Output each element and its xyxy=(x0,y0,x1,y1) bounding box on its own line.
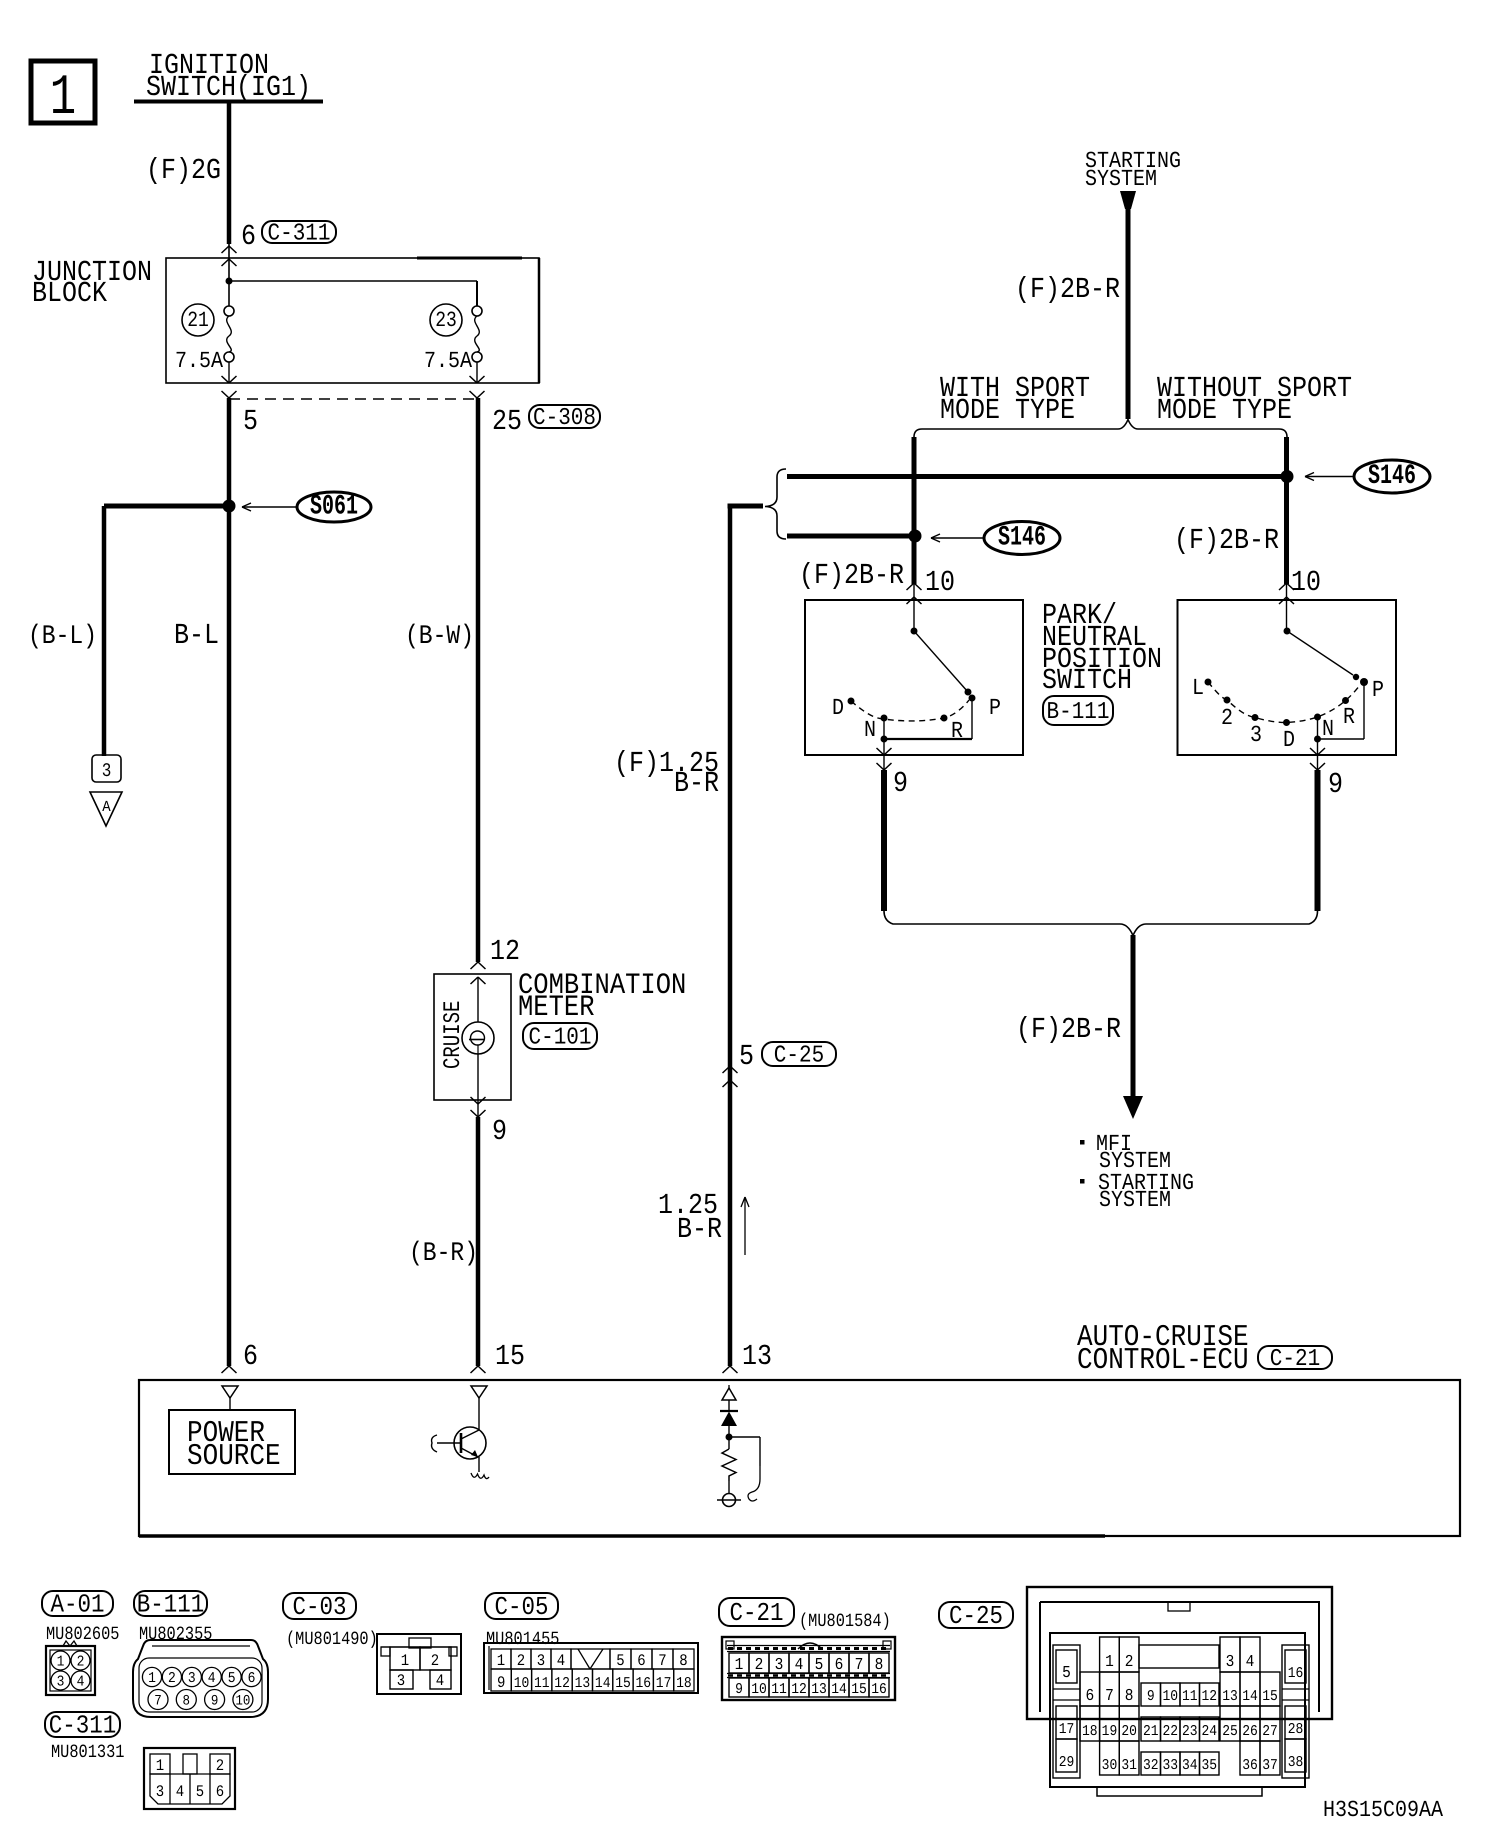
svg-text:CONTROL-ECU: CONTROL-ECU xyxy=(1077,1342,1249,1377)
svg-text:3: 3 xyxy=(537,1652,545,1670)
svg-text:29: 29 xyxy=(1059,1753,1075,1770)
svg-text:R: R xyxy=(1343,705,1355,731)
svg-text:9: 9 xyxy=(1328,768,1343,802)
svg-text:1: 1 xyxy=(401,1652,409,1670)
svg-text:10: 10 xyxy=(1162,1687,1178,1704)
svg-text:21: 21 xyxy=(187,309,209,333)
svg-text:25: 25 xyxy=(492,405,522,439)
svg-text:(MU801490): (MU801490) xyxy=(286,1628,378,1650)
svg-text:4: 4 xyxy=(436,1672,444,1690)
svg-text:C-311: C-311 xyxy=(49,1711,117,1741)
svg-text:27: 27 xyxy=(1262,1722,1278,1739)
svg-text:(F)2B-R: (F)2B-R xyxy=(1174,524,1279,558)
svg-text:(F)2G: (F)2G xyxy=(146,154,221,188)
svg-text:28: 28 xyxy=(1288,1720,1304,1737)
svg-text:B-R: B-R xyxy=(674,767,719,801)
svg-text:14: 14 xyxy=(1242,1687,1258,1704)
svg-text:5: 5 xyxy=(815,1656,824,1674)
svg-text:12: 12 xyxy=(554,1674,570,1691)
svg-text:12: 12 xyxy=(490,935,520,969)
svg-text:B-R: B-R xyxy=(677,1213,722,1247)
svg-text:BLOCK: BLOCK xyxy=(32,277,107,311)
svg-text:SYSTEM: SYSTEM xyxy=(1085,167,1157,193)
svg-text:A-01: A-01 xyxy=(50,1590,104,1620)
svg-text:7: 7 xyxy=(154,1693,162,1709)
svg-text:5: 5 xyxy=(739,1040,754,1074)
svg-text:17: 17 xyxy=(1059,1720,1075,1737)
svg-text:35: 35 xyxy=(1201,1756,1217,1773)
svg-text:B-111: B-111 xyxy=(137,1590,205,1620)
svg-text:C-311: C-311 xyxy=(267,221,330,247)
svg-text:9: 9 xyxy=(497,1674,505,1692)
svg-text:5: 5 xyxy=(196,1783,204,1801)
svg-text:16: 16 xyxy=(871,1680,887,1697)
svg-text:4: 4 xyxy=(1246,1653,1255,1671)
svg-text:23: 23 xyxy=(435,309,457,333)
svg-text:SWITCH(IG1): SWITCH(IG1) xyxy=(146,71,311,105)
svg-text:B-111: B-111 xyxy=(1046,700,1109,726)
svg-text:9: 9 xyxy=(1147,1687,1155,1704)
svg-text:33: 33 xyxy=(1162,1756,1178,1773)
svg-text:3: 3 xyxy=(1250,723,1262,749)
svg-text:3: 3 xyxy=(102,760,112,782)
svg-text:P: P xyxy=(989,696,1001,722)
svg-text:16: 16 xyxy=(1288,1664,1304,1681)
svg-text:23: 23 xyxy=(1182,1722,1198,1739)
svg-text:11: 11 xyxy=(534,1674,550,1691)
svg-text:10: 10 xyxy=(235,1693,250,1709)
svg-text:3: 3 xyxy=(188,1669,196,1686)
svg-text:C-05: C-05 xyxy=(494,1592,548,1622)
svg-text:13: 13 xyxy=(742,1340,772,1374)
svg-text:MU802355: MU802355 xyxy=(139,1623,212,1645)
svg-text:C-21: C-21 xyxy=(729,1598,783,1628)
svg-text:(B-R): (B-R) xyxy=(409,1238,478,1268)
svg-text:19: 19 xyxy=(1102,1722,1118,1739)
svg-text:8: 8 xyxy=(183,1693,191,1709)
svg-text:C-03: C-03 xyxy=(292,1592,346,1622)
svg-text:9: 9 xyxy=(735,1680,743,1697)
svg-text:4: 4 xyxy=(208,1669,216,1686)
svg-text:9: 9 xyxy=(492,1115,507,1149)
svg-text:5: 5 xyxy=(228,1669,236,1686)
svg-text:1: 1 xyxy=(57,1653,65,1670)
svg-text:31: 31 xyxy=(1121,1756,1137,1773)
svg-text:METER: METER xyxy=(518,991,595,1025)
svg-text:3: 3 xyxy=(156,1783,164,1801)
svg-text:24: 24 xyxy=(1201,1722,1217,1739)
svg-text:(B-L): (B-L) xyxy=(28,621,97,651)
svg-text:1: 1 xyxy=(1105,1653,1114,1671)
svg-text:18: 18 xyxy=(676,1674,692,1691)
svg-text:4: 4 xyxy=(77,1673,85,1690)
svg-text:4: 4 xyxy=(795,1656,804,1674)
svg-text:C-101: C-101 xyxy=(528,1025,591,1051)
svg-text:C-25: C-25 xyxy=(774,1043,824,1069)
svg-text:C-308: C-308 xyxy=(533,406,596,432)
svg-text:2: 2 xyxy=(168,1669,176,1686)
svg-text:15: 15 xyxy=(495,1340,525,1374)
svg-text:36: 36 xyxy=(1242,1756,1258,1773)
svg-text:10: 10 xyxy=(514,1674,530,1691)
svg-text:12: 12 xyxy=(791,1680,807,1697)
svg-text:(F)2B-R: (F)2B-R xyxy=(1016,1013,1121,1047)
svg-text:20: 20 xyxy=(1121,1722,1137,1739)
svg-text:7.5A: 7.5A xyxy=(175,349,223,375)
svg-text:11: 11 xyxy=(1182,1687,1198,1704)
svg-text:15: 15 xyxy=(1262,1687,1278,1704)
svg-text:34: 34 xyxy=(1182,1756,1198,1773)
svg-text:MU802605: MU802605 xyxy=(46,1623,119,1645)
svg-text:26: 26 xyxy=(1242,1722,1258,1739)
svg-text:6: 6 xyxy=(243,1340,258,1374)
svg-text:(B-W): (B-W) xyxy=(405,621,474,651)
svg-text:2: 2 xyxy=(517,1652,525,1670)
svg-text:7: 7 xyxy=(855,1656,864,1674)
svg-text:5: 5 xyxy=(1062,1664,1071,1682)
svg-text:4: 4 xyxy=(557,1652,565,1670)
svg-text:(F)2B-R: (F)2B-R xyxy=(1015,273,1120,307)
svg-text:SOURCE: SOURCE xyxy=(187,1438,281,1473)
svg-text:C-21: C-21 xyxy=(1270,1347,1320,1373)
svg-text:MODE TYPE: MODE TYPE xyxy=(940,394,1075,428)
svg-text:2: 2 xyxy=(1221,706,1233,732)
svg-text:15: 15 xyxy=(615,1674,631,1691)
svg-text:12: 12 xyxy=(1201,1687,1217,1704)
svg-text:B-L: B-L xyxy=(174,619,219,653)
svg-text:2: 2 xyxy=(77,1653,85,1670)
svg-text:A: A xyxy=(102,799,111,817)
svg-text:13: 13 xyxy=(1222,1687,1238,1704)
svg-text:13: 13 xyxy=(575,1674,591,1691)
svg-text:6: 6 xyxy=(216,1783,224,1801)
svg-text:3: 3 xyxy=(1226,1653,1235,1671)
svg-text:R: R xyxy=(951,719,963,745)
svg-text:6: 6 xyxy=(637,1652,645,1670)
svg-text:38: 38 xyxy=(1288,1753,1304,1770)
svg-text:N: N xyxy=(864,718,876,744)
svg-text:MU801455: MU801455 xyxy=(486,1628,559,1650)
svg-text:(F)2B-R: (F)2B-R xyxy=(799,559,904,593)
svg-text:5: 5 xyxy=(616,1652,624,1670)
svg-text:H3S15C09AA: H3S15C09AA xyxy=(1323,1798,1443,1824)
svg-text:8: 8 xyxy=(1125,1687,1134,1705)
svg-text:SWITCH: SWITCH xyxy=(1042,664,1132,698)
svg-text:6: 6 xyxy=(241,220,256,254)
svg-text:37: 37 xyxy=(1262,1756,1278,1773)
svg-text:D: D xyxy=(832,696,844,722)
svg-text:16: 16 xyxy=(635,1674,651,1691)
svg-text:21: 21 xyxy=(1143,1722,1159,1739)
svg-text:11: 11 xyxy=(771,1680,787,1697)
svg-text:10: 10 xyxy=(1291,566,1321,600)
svg-text:7: 7 xyxy=(1105,1687,1114,1705)
svg-text:2: 2 xyxy=(431,1652,439,1670)
svg-text:P: P xyxy=(1372,678,1384,704)
svg-text:3: 3 xyxy=(57,1673,65,1690)
svg-text:2: 2 xyxy=(216,1757,224,1775)
svg-text:D: D xyxy=(1283,728,1295,754)
svg-text:MU801331: MU801331 xyxy=(51,1741,124,1763)
svg-text:6: 6 xyxy=(835,1656,844,1674)
svg-text:9: 9 xyxy=(893,767,908,801)
svg-text:L: L xyxy=(1192,676,1204,702)
svg-text:1: 1 xyxy=(148,1669,156,1686)
svg-text:3: 3 xyxy=(397,1672,405,1690)
svg-text:MODE TYPE: MODE TYPE xyxy=(1157,394,1292,428)
svg-text:10: 10 xyxy=(751,1680,767,1697)
svg-text:1: 1 xyxy=(735,1656,744,1674)
svg-text:4: 4 xyxy=(176,1783,184,1801)
svg-text:1: 1 xyxy=(156,1757,164,1775)
svg-text:22: 22 xyxy=(1162,1722,1178,1739)
svg-text:7: 7 xyxy=(658,1652,666,1670)
svg-text:1: 1 xyxy=(497,1652,505,1670)
svg-text:(MU801584): (MU801584) xyxy=(799,1610,891,1632)
svg-text:6: 6 xyxy=(248,1669,256,1686)
svg-text:5: 5 xyxy=(243,405,258,439)
svg-text:14: 14 xyxy=(831,1680,847,1697)
svg-text:18: 18 xyxy=(1082,1722,1098,1739)
svg-text:1: 1 xyxy=(50,66,76,131)
svg-text:14: 14 xyxy=(595,1674,611,1691)
svg-text:32: 32 xyxy=(1143,1756,1159,1773)
svg-text:10: 10 xyxy=(925,566,955,600)
svg-text:8: 8 xyxy=(679,1652,687,1670)
svg-text:3: 3 xyxy=(775,1656,784,1674)
svg-text:25: 25 xyxy=(1222,1722,1238,1739)
svg-text:13: 13 xyxy=(811,1680,827,1697)
svg-text:2: 2 xyxy=(1125,1653,1134,1671)
svg-text:15: 15 xyxy=(851,1680,867,1697)
svg-text:S061: S061 xyxy=(310,491,358,523)
svg-text:C-25: C-25 xyxy=(949,1601,1003,1631)
svg-text:S146: S146 xyxy=(1368,460,1416,492)
svg-text:8: 8 xyxy=(875,1656,884,1674)
svg-text:7.5A: 7.5A xyxy=(424,349,472,375)
svg-text:17: 17 xyxy=(656,1674,672,1691)
svg-text:30: 30 xyxy=(1102,1756,1118,1773)
svg-text:S146: S146 xyxy=(998,522,1046,554)
svg-text:SYSTEM: SYSTEM xyxy=(1099,1188,1171,1214)
svg-text:CRUISE: CRUISE xyxy=(439,1001,467,1069)
svg-text:9: 9 xyxy=(211,1693,219,1709)
svg-text:6: 6 xyxy=(1085,1687,1094,1705)
svg-text:2: 2 xyxy=(755,1656,764,1674)
